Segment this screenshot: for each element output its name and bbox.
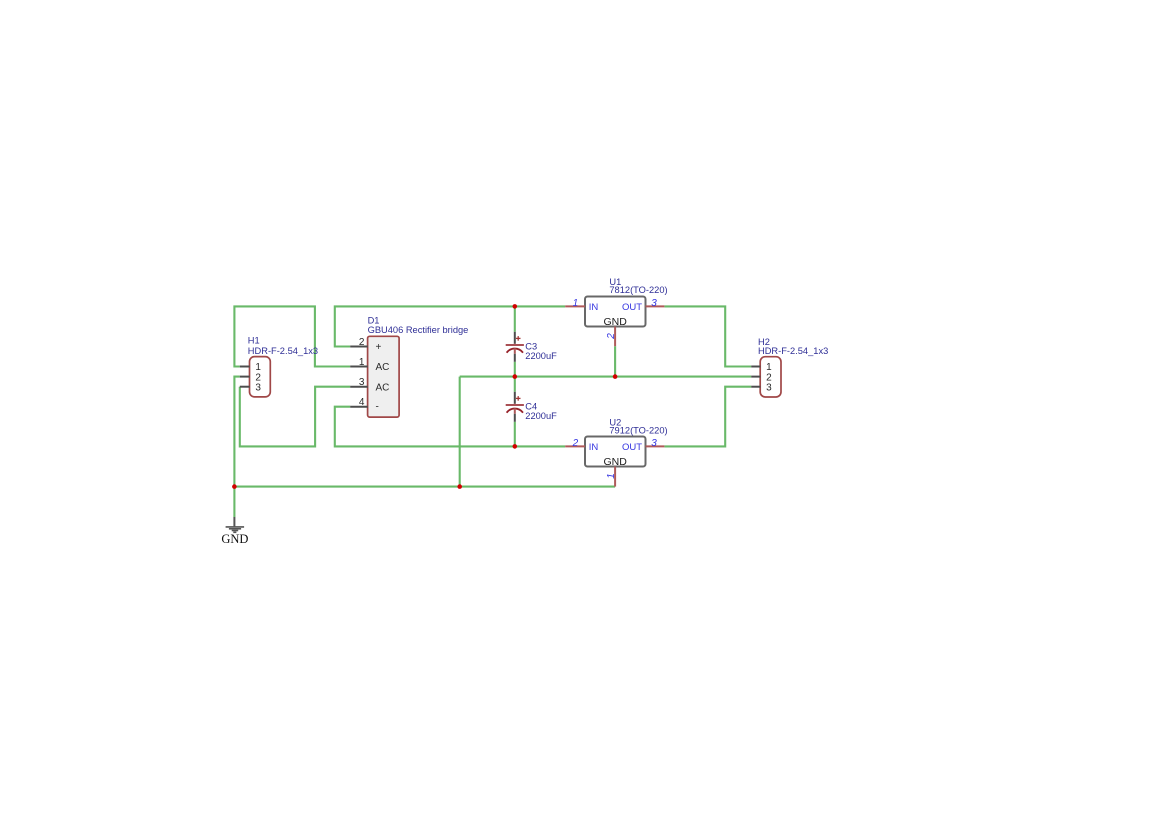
- H1 pin 3 stub: [240, 386, 250, 388]
- svg-text:3: 3: [359, 377, 365, 388]
- svg-text:2200uF: 2200uF: [525, 351, 557, 361]
- H2 pin 1 stub: [751, 366, 760, 368]
- wire D1 pin2 to top rail to U1 pin1: [335, 306, 565, 346]
- svg-text:HDR-F-2.54_1x3: HDR-F-2.54_1x3: [758, 346, 828, 356]
- wire H1 pin1 to D1 pin1 (left loop): [234, 306, 350, 366]
- junction bottom V- rail at C4: [513, 444, 518, 449]
- header H1 body: [250, 357, 271, 397]
- wire C3 bottom lead: [514, 362, 516, 377]
- U1 pin 1 lead (IN): [565, 305, 585, 307]
- junction mid rail at C3/C4: [513, 374, 518, 379]
- H2 pin 3 stub: [751, 386, 760, 388]
- D1 pin 1 stub: [350, 366, 368, 368]
- svg-text:2200uF: 2200uF: [525, 411, 557, 421]
- D1 pin 3 stub: [350, 386, 368, 388]
- wire U1 GND pin to mid rail: [614, 346, 616, 376]
- wire C4 top lead: [514, 377, 516, 392]
- svg-text:AC: AC: [376, 382, 390, 393]
- svg-text:3: 3: [651, 438, 657, 449]
- svg-text:1: 1: [573, 298, 579, 309]
- wire mid GND rail drop to bottom rail: [459, 377, 461, 487]
- wire H1 pin3 to D1 pin3 (lower loop): [240, 387, 350, 447]
- junction mid rail at U1 GND: [613, 374, 618, 379]
- svg-text:-: -: [376, 402, 379, 413]
- wire U1 OUT to H2 pin1: [664, 306, 751, 366]
- svg-text:OUT: OUT: [622, 302, 642, 313]
- wire ground bottom rail: [234, 486, 615, 488]
- junction ground rail at H1 pin2: [232, 484, 237, 489]
- U2 pin 2 lead (IN): [565, 445, 585, 447]
- svg-text:C3: C3: [525, 341, 537, 351]
- svg-text:+: +: [376, 342, 382, 353]
- svg-text:GND: GND: [221, 532, 248, 546]
- U1 pin 3 lead (OUT): [646, 305, 665, 307]
- ground symbol: [226, 517, 245, 532]
- svg-text:C4: C4: [525, 401, 537, 411]
- svg-text:GND: GND: [604, 456, 628, 468]
- svg-text:OUT: OUT: [622, 442, 642, 453]
- svg-text:7912(TO-220): 7912(TO-220): [609, 425, 667, 435]
- regulator U1 body: [585, 297, 646, 327]
- rectifier bridge D1 body: [368, 336, 400, 417]
- svg-text:GBU406 Rectifier bridge: GBU406 Rectifier bridge: [368, 325, 469, 335]
- wire D1 pin4 to bottom rail to U2 pin2: [335, 407, 565, 447]
- wire mid GND rail to H2 pin2: [460, 376, 752, 378]
- svg-text:4: 4: [359, 397, 365, 408]
- svg-text:HDR-F-2.54_1x3: HDR-F-2.54_1x3: [248, 346, 318, 356]
- svg-text:AC: AC: [376, 362, 390, 373]
- regulator U2 body: [585, 437, 646, 467]
- capacitor C4: [506, 392, 524, 422]
- svg-text:1: 1: [359, 357, 365, 368]
- svg-text:1: 1: [606, 473, 617, 479]
- svg-text:2: 2: [359, 337, 365, 348]
- wire C3 top lead: [514, 306, 516, 331]
- wire ground symbol stub: [233, 487, 235, 517]
- svg-text:IN: IN: [589, 302, 599, 313]
- svg-text:7812(TO-220): 7812(TO-220): [609, 285, 667, 295]
- D1 pin 2 stub: [350, 346, 368, 348]
- wire U2 OUT to H2 pin3: [664, 387, 751, 447]
- H1 pin 1 stub: [240, 366, 250, 368]
- junction top rail at C3: [513, 304, 518, 309]
- U2 pin 3 lead (OUT): [646, 445, 665, 447]
- D1 pin 4 stub: [350, 406, 368, 408]
- svg-text:3: 3: [255, 382, 261, 393]
- wire H1 pin2 down to ground rail: [234, 377, 239, 487]
- U1 pin 2 lead (GND): [614, 327, 616, 347]
- H2 pin 2 stub: [751, 376, 760, 378]
- svg-text:3: 3: [651, 298, 657, 309]
- svg-text:H1: H1: [248, 336, 260, 346]
- svg-text:3: 3: [766, 382, 772, 393]
- capacitor C3: [506, 332, 524, 362]
- wire C4 bottom lead: [514, 422, 516, 447]
- U2 pin 1 lead (GND): [614, 467, 616, 487]
- header H2 body: [760, 357, 781, 397]
- junction ground rail at mid drop: [457, 484, 462, 489]
- svg-text:2: 2: [572, 438, 579, 449]
- svg-text:2: 2: [606, 333, 617, 340]
- svg-text:IN: IN: [589, 442, 599, 453]
- svg-text:GND: GND: [604, 316, 628, 328]
- H1 pin 2 stub: [240, 376, 250, 378]
